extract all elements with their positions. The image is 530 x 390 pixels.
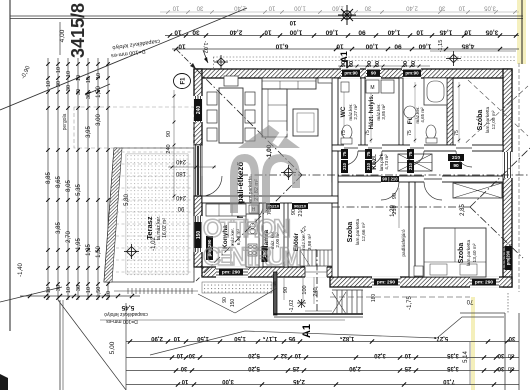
svg-text:-1,02: -1,02 (151, 237, 157, 251)
svg-text:10: 10 (66, 71, 72, 77)
svg-text:7,10: 7,10 (443, 378, 455, 384)
door opening kamra (266, 202, 280, 210)
dining table (219, 88, 243, 143)
svg-text:3,98 m²: 3,98 m² (307, 233, 313, 250)
svg-text:10: 10 (404, 352, 411, 358)
svg-text:-1,40: -1,40 (18, 263, 24, 277)
svg-text:30: 30 (438, 5, 445, 11)
svg-text:210: 210 (366, 162, 371, 170)
tag 290 pm vertical kitchen-terrace (206, 236, 213, 260)
interior wall szoba divider vertical (409, 182, 415, 277)
svg-text:30: 30 (497, 365, 504, 371)
roof diagonal top-right corner (468, 80, 528, 136)
A1 section dash line (316, 250, 318, 313)
svg-text:pm:90: pm:90 (344, 71, 358, 76)
terrace inner dotted border (126, 154, 188, 274)
svg-text:240: 240 (166, 144, 172, 153)
svg-text:75: 75 (365, 130, 371, 136)
door arc szoba 13,40 (424, 182, 442, 200)
window tag top wall 3 (403, 70, 421, 77)
sheet top border double line (10, 15, 523, 17)
svg-text:-1,15: -1,15 (438, 40, 444, 53)
roof hip diagonal from top-left (196, 69, 302, 175)
hazt washing machine (366, 80, 379, 93)
watermark letter O (230, 154, 259, 213)
svg-text:3,20: 3,20 (374, 352, 386, 358)
svg-text:75: 75 (407, 130, 413, 136)
entrance steps (336, 290, 338, 314)
kitchen top counter (206, 204, 246, 216)
svg-text:10: 10 (86, 287, 92, 293)
sheet right border line top (521, 0, 523, 64)
svg-text:30: 30 (66, 85, 72, 91)
svg-text:padlásfeljáró: padlásfeljáró (401, 229, 407, 257)
svg-text:5,45: 5,45 (121, 304, 134, 311)
door opening szoba 13,40 (424, 175, 442, 182)
F1 marker oval (174, 74, 191, 89)
window tag pm290 bottom 1 (374, 279, 398, 286)
svg-text:90: 90 (394, 43, 402, 50)
terrace door opening left wall (194, 145, 202, 196)
interior wall living/WC vertical (332, 78, 338, 145)
eave dashed line right (518, 63, 520, 292)
svg-text:2,40: 2,40 (406, 5, 418, 11)
svg-text:5,14: 5,14 (463, 351, 469, 363)
svg-text:3,35: 3,35 (447, 352, 459, 358)
door tag kamra 75 210 (266, 203, 280, 209)
svg-text:pm: 290: pm: 290 (377, 280, 395, 286)
window tag kitchen left 90 150 (195, 222, 202, 248)
door opening szoba 12,66 (381, 175, 399, 182)
svg-text:10: 10 (416, 29, 424, 36)
chair top (224, 76, 238, 86)
svg-text:3,35: 3,35 (447, 365, 459, 371)
exterior wall top (194, 69, 512, 78)
svg-text:pm: 290: pm: 290 (475, 280, 493, 286)
interior wall WC/hazt (361, 78, 365, 145)
yellow highlighter strip bottom right (471, 297, 475, 390)
exterior wall left kitchen (194, 196, 202, 267)
svg-text:pm:90: pm:90 (405, 71, 419, 76)
kitchen stove (248, 244, 257, 256)
svg-text:210: 210 (298, 207, 304, 216)
svg-text:2,45: 2,45 (293, 378, 305, 384)
svg-text:30: 30 (508, 365, 514, 371)
steps diagonal break (332, 292, 346, 314)
coffee table rug (293, 109, 318, 136)
svg-text:1,00: 1,00 (289, 29, 302, 36)
svg-text:10: 10 (174, 29, 182, 36)
svg-text:150: 150 (196, 231, 202, 240)
sofa vertical part (262, 89, 287, 137)
svg-text:M: M (370, 85, 374, 91)
interior wall kitchen/kamra vertical (259, 203, 263, 267)
svg-text:1,00: 1,00 (294, 5, 306, 11)
svg-text:4,73 m²: 4,73 m² (384, 154, 389, 170)
svg-text:90: 90 (392, 193, 398, 199)
terrace slanted hatch strip left (104, 148, 122, 282)
svg-text:5,80: 5,80 (124, 194, 130, 206)
door tag 90 210 szoba (381, 176, 399, 182)
wc basin (341, 82, 349, 92)
door arc terrace to living (202, 176, 222, 196)
bottom vertical line left (59, 300, 61, 390)
svg-text:lam.parketta: lam.parketta (485, 106, 491, 133)
dashed roof X top-right 1 (460, 86, 528, 148)
svg-text:75: 75 (342, 151, 347, 156)
svg-text:pm|290: pm|290 (505, 250, 510, 265)
svg-text:150: 150 (230, 299, 236, 308)
bottom left black corner mark (0, 374, 8, 390)
svg-text:30: 30 (76, 285, 82, 291)
dining chairs right (245, 92, 255, 105)
svg-text:csapadékvíz lefolyó: csapadékvíz lefolyó (104, 311, 148, 317)
sheet left border line (9, 0, 11, 331)
black tag kamra wall (262, 246, 268, 262)
window tag top wall 2 (367, 70, 380, 77)
svg-text:1,60: 1,60 (325, 29, 338, 36)
svg-text:240: 240 (175, 158, 186, 164)
svg-text:10: 10 (264, 29, 272, 36)
svg-text:Közl.: Közl. (371, 154, 378, 170)
svg-text:16,02 m²: 16,02 m² (162, 218, 168, 238)
dashed line bottom right (330, 296, 470, 298)
wardrobe szoba 13,40 with X (453, 183, 502, 198)
svg-text:240: 240 (196, 106, 202, 115)
svg-text:3415/8: 3415/8 (68, 3, 88, 58)
door opening hazt (368, 144, 382, 151)
svg-text:8,65: 8,65 (56, 176, 62, 188)
window opening right wall (502, 152, 513, 178)
window opening top wall furdo (402, 68, 421, 79)
exterior wall bottom right section (330, 277, 512, 287)
svg-text:25: 25 (292, 365, 299, 371)
svg-text:4,85: 4,85 (461, 43, 474, 50)
svg-text:1,50: 1,50 (197, 335, 209, 341)
right margin line y51 (430, 50, 516, 52)
left vertical dimension chains (47, 58, 49, 300)
svg-text:10: 10 (46, 81, 52, 87)
svg-text:12,66 m²: 12,66 m² (361, 222, 367, 241)
svg-text:2,90: 2,90 (349, 365, 361, 371)
svg-text:8,85: 8,85 (46, 172, 52, 184)
roof ridge dash-dot south wing (332, 206, 470, 208)
svg-text:1,50: 1,50 (234, 335, 246, 341)
eave dotted stub vertical (213, 57, 215, 68)
door tag eloter 90 210 (292, 203, 308, 209)
svg-text:-1,75: -1,75 (407, 296, 413, 310)
terrace dotted floor texture (126, 154, 188, 276)
svg-text:30: 30 (86, 93, 92, 99)
svg-text:180: 180 (371, 294, 377, 303)
svg-text:CENTRUM: CENTRUM (203, 243, 302, 271)
interior wall kamra/eloter vertical (284, 203, 288, 267)
svg-text:10: 10 (176, 352, 183, 358)
svg-text:10: 10 (96, 73, 102, 79)
terrace horizontal dim line (168, 166, 216, 168)
svg-text:75: 75 (341, 130, 347, 136)
svg-text:12,05 m²: 12,05 m² (491, 110, 497, 129)
window opening bottom wall 1 (372, 276, 400, 288)
svg-text:3,95: 3,95 (86, 126, 92, 138)
door arc szoba 12,66 (381, 182, 399, 200)
svg-text:10: 10 (66, 287, 72, 293)
door arc WC (344, 151, 358, 165)
bottom vertical line 126 (125, 303, 127, 390)
svg-text:Szoba: Szoba (347, 222, 354, 243)
bottom right dotted vertical (507, 293, 509, 313)
svg-text:2,90: 2,90 (151, 335, 163, 341)
exterior wall bottom kitchen section (202, 267, 333, 277)
svg-text:5,00: 5,00 (109, 341, 116, 354)
svg-text:10: 10 (458, 5, 465, 11)
porch threshold lines (305, 310, 332, 312)
right margin level diamond (446, 51, 461, 66)
svg-text:75: 75 (454, 130, 460, 136)
svg-text:1,60: 1,60 (418, 43, 431, 50)
door opening eloter top (292, 202, 308, 210)
svg-text:3,05: 3,05 (484, 5, 496, 11)
interior wall kitchen top horizontal (202, 196, 338, 203)
svg-text:-1,02: -1,02 (289, 300, 295, 313)
svg-text:30: 30 (180, 365, 187, 371)
wc toilet (342, 125, 352, 139)
door arc kitchen (249, 206, 263, 220)
svg-text:90: 90 (166, 131, 172, 137)
svg-text:1,00: 1,00 (365, 43, 378, 50)
svg-text:240: 240 (175, 194, 186, 200)
svg-text:D=100 mm-es: D=100 mm-es (106, 318, 138, 324)
svg-text:2,40: 2,40 (229, 29, 242, 36)
door opening WC (344, 144, 358, 151)
svg-text:10: 10 (56, 67, 62, 73)
terrace bottom tick row (127, 288, 129, 294)
interior wall hazt/furdo (399, 78, 403, 145)
svg-text:lam.parketta: lam.parketta (466, 239, 472, 266)
porch bottom edge (274, 313, 363, 315)
window tag top wall 1 (342, 70, 360, 77)
svg-text:F1: F1 (181, 77, 187, 85)
svg-text:25: 25 (404, 365, 411, 371)
bathtub (424, 78, 447, 105)
svg-text:10: 10 (181, 378, 188, 384)
window tag pm290 kitchen (219, 269, 243, 276)
door opening szoba top right (456, 144, 472, 151)
double bed szoba 13,40 (424, 228, 486, 277)
yellow highlighter strip top right (517, 0, 526, 64)
gravel strip under kitchen wall (202, 282, 272, 293)
svg-text:Szóba: Szóba (477, 110, 484, 131)
svg-text:Szoba: Szoba (458, 243, 465, 264)
svg-text:8,05: 8,05 (66, 180, 72, 192)
svg-text:95: 95 (288, 335, 295, 341)
svg-text:210: 210 (408, 162, 413, 170)
door tag szoba right 210 (448, 154, 464, 161)
bath sink (404, 106, 416, 118)
svg-text:1,17₅: 1,17₅ (263, 335, 278, 341)
dining chairs left (207, 92, 217, 105)
svg-text:2,27 m²: 2,27 m² (353, 104, 358, 120)
bottom diagonal boundary (0, 287, 62, 302)
svg-text:10: 10 (86, 77, 92, 83)
terrace pergola dashed beams (116, 151, 194, 153)
ground line bottom left (100, 319, 345, 321)
door arc hazt (368, 151, 382, 165)
interior wall eloter/szoba vertical (332, 151, 338, 277)
interior wall szoba top horizontal (332, 176, 503, 182)
svg-text:90: 90 (291, 209, 297, 215)
svg-text:30: 30 (76, 89, 82, 95)
exterior wall left living room (194, 69, 202, 145)
svg-text:3,85: 3,85 (56, 222, 62, 234)
porch dim lines (283, 277, 285, 300)
svg-text:6,10: 6,10 (275, 43, 288, 50)
svg-text:pergola: pergola (62, 113, 68, 130)
exterior wall right (503, 69, 512, 287)
roof hip diagonal arrow stub (176, 49, 196, 69)
svg-text:90: 90 (358, 29, 366, 36)
svg-text:3,85 m²: 3,85 m² (381, 104, 386, 120)
attic ladder box corridor (398, 154, 432, 171)
interior wall corridor horizontal (332, 145, 503, 151)
svg-text:13,40 m²: 13,40 m² (472, 243, 478, 262)
svg-text:10: 10 (76, 75, 82, 81)
horizontal dim line left bottom (20, 295, 140, 297)
svg-text:75: 75 (408, 151, 413, 156)
tv shelf top right living (318, 78, 332, 83)
kitchen sink (248, 222, 257, 234)
svg-text:90: 90 (177, 205, 184, 211)
door arc furdo (410, 151, 424, 165)
north symbol (338, 5, 356, 25)
eave dotted line top B (213, 60, 516, 62)
svg-text:30: 30 (364, 5, 371, 11)
svg-text:10: 10 (268, 5, 275, 11)
property boundary diagonal top-left (0, 8, 247, 110)
window opening top wall WC (341, 68, 360, 79)
svg-text:30: 30 (56, 81, 62, 87)
level diamond above wall left (214, 55, 228, 69)
door tag szoba right 90 (450, 162, 462, 169)
kitchen counter right (246, 214, 259, 267)
interior wall furdo/szoba thick (447, 78, 453, 145)
window opening kitchen left (193, 216, 203, 252)
svg-text:30: 30 (196, 5, 203, 11)
svg-text:210: 210 (342, 162, 347, 170)
living level diamond -1,00 (281, 165, 296, 180)
tag 290 vertical right wall lower (505, 246, 512, 270)
svg-text:90: 90 (453, 163, 459, 169)
svg-text:90 | 210: 90 | 210 (382, 176, 398, 181)
watermark roof triangle (203, 125, 302, 271)
svg-text:2,85: 2,85 (460, 204, 466, 216)
svg-text:3,05: 3,05 (485, 29, 498, 36)
svg-text:3,00: 3,00 (222, 378, 234, 384)
window opening kitchen bottom (216, 266, 248, 278)
terrace level diamond (124, 244, 139, 259)
svg-text:75: 75 (366, 151, 371, 156)
eave dotted line top A (213, 56, 516, 58)
svg-text:90: 90 (371, 71, 377, 76)
svg-text:Házt. helyis.: Házt. helyis. (369, 94, 375, 129)
bath wc (426, 125, 436, 139)
roof hip diagonal SE from south hip (470, 207, 523, 258)
roof eave diamond at entrance (198, 294, 235, 313)
sofa horizontal part (262, 78, 316, 89)
roof hip diagonal to bottom-left (196, 175, 302, 281)
terrace outline (104, 148, 194, 282)
svg-text:32: 32 (280, 352, 287, 358)
nightstand left (414, 266, 423, 276)
door opening eloter bottom wall (305, 266, 327, 278)
svg-text:10: 10 (172, 5, 179, 11)
bottom right vertical lines (504, 313, 506, 390)
svg-text:30: 30 (497, 352, 504, 358)
door arc szoba right top (456, 151, 472, 167)
pergola dashed outline (74, 107, 194, 148)
room interior dim chains vertical (343, 82, 345, 143)
window opening left wall living (193, 96, 203, 122)
svg-text:lam.parketta: lam.parketta (355, 218, 361, 245)
eloter entry steps (300, 250, 332, 266)
kitchen boiler H (249, 205, 258, 213)
svg-text:10: 10 (178, 43, 186, 50)
terrain section polyline (150, 317, 504, 355)
door arc eloter entry (298, 249, 316, 267)
svg-text:90: 90 (222, 297, 228, 303)
svg-text:2,70: 2,70 (66, 231, 72, 243)
svg-text:10: 10 (173, 335, 180, 341)
black tag upper window left wall (194, 99, 202, 121)
porch level star (297, 299, 306, 308)
door opening furdo (410, 144, 424, 151)
svg-text:3,00: 3,00 (96, 114, 102, 126)
svg-text:A1: A1 (301, 324, 313, 338)
porch side wall (274, 272, 278, 315)
svg-text:10: 10 (294, 352, 301, 358)
svg-text:Terasz: Terasz (145, 216, 154, 239)
window opening top wall hazt (366, 68, 381, 79)
svg-text:5,27₅: 5,27₅ (434, 335, 449, 341)
svg-text:1,45: 1,45 (439, 29, 452, 36)
svg-text:5,20: 5,20 (248, 352, 260, 358)
watermark letter C (262, 154, 300, 213)
svg-text:5,20: 5,20 (248, 365, 260, 371)
svg-text:WC: WC (340, 106, 347, 117)
roof hip diagonal NE from south hip (470, 148, 530, 207)
roof ridge dash-dot horizontal (240, 174, 530, 176)
dim chain left of west wall (173, 90, 175, 200)
svg-text:70: 70 (466, 298, 473, 304)
window opening bottom wall 2 (470, 276, 499, 288)
svg-text:1,40: 1,40 (387, 29, 400, 36)
svg-text:4,65 m²: 4,65 m² (420, 107, 425, 123)
svg-text:1,95: 1,95 (76, 238, 82, 250)
svg-text:-1,02: -1,02 (202, 41, 208, 54)
svg-text:45: 45 (272, 281, 278, 287)
window tag pm290 bottom 2 (472, 279, 496, 286)
svg-text:30: 30 (188, 352, 195, 358)
svg-text:OTTHON: OTTHON (203, 215, 291, 243)
svg-text:1,82₅: 1,82₅ (340, 335, 355, 341)
svg-text:5,35: 5,35 (76, 184, 82, 196)
svg-text:10: 10 (289, 19, 296, 25)
svg-text:30: 30 (508, 352, 514, 358)
svg-text:180: 180 (175, 170, 186, 176)
left chain tick marks (46, 62, 50, 66)
arrow into wall corner (203, 50, 208, 63)
